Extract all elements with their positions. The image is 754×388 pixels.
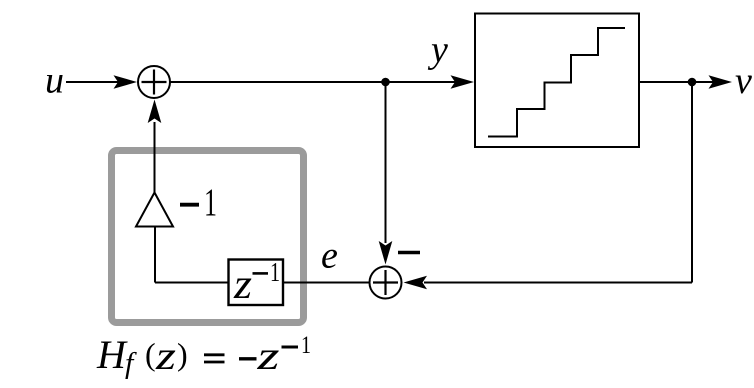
svg-text:): ) <box>177 336 188 372</box>
wire feedback right vertical <box>691 82 693 283</box>
svg-text:z: z <box>256 333 280 378</box>
delay block label exponent minus <box>253 272 269 275</box>
wire summer S2 to delay block <box>283 282 369 284</box>
wire u to summer S1 <box>66 81 118 83</box>
wire delay block to corner <box>155 282 229 284</box>
junction node v (dot) <box>688 78 697 87</box>
svg-text:1: 1 <box>204 181 217 224</box>
wire corner up to amplifier <box>154 225 156 283</box>
arrowhead into summer S2 from top <box>379 241 393 265</box>
svg-text:z: z <box>155 333 177 378</box>
formula equals sign <box>204 355 225 362</box>
wire y junction down to summer S2 <box>385 82 387 243</box>
amplifier gain label minus <box>180 203 199 207</box>
svg-text:u: u <box>45 60 64 102</box>
quantizer block Q <box>475 14 639 148</box>
arrowhead to output v <box>709 75 733 89</box>
svg-text:(: ( <box>145 336 156 372</box>
quantizer staircase symbol <box>488 28 625 137</box>
wire feedback bottom horizontal <box>424 282 692 284</box>
svg-text:H: H <box>96 332 128 377</box>
summer S2 plus sign <box>373 270 398 295</box>
wire amplifier up to summer S1 <box>154 122 156 193</box>
formula exponent minus <box>282 346 299 349</box>
junction node y (dot) <box>381 78 390 87</box>
arrowhead into summer S1 <box>114 75 138 89</box>
wire quantizer to output <box>639 81 713 83</box>
formula label H_f(z) = -z^-1 <box>96 332 311 380</box>
svg-text:v: v <box>735 60 752 102</box>
arrowhead into summer S1 from below <box>148 100 162 124</box>
wire summer S1 to quantizer <box>170 81 456 83</box>
svg-text:f: f <box>125 347 137 380</box>
summer S1 circle <box>138 66 170 98</box>
svg-text:e: e <box>321 235 338 277</box>
svg-text:y: y <box>427 29 448 71</box>
formula minus sign <box>239 357 257 360</box>
svg-text:z: z <box>233 262 252 308</box>
feedback filter enclosure (gray box) <box>112 151 304 323</box>
svg-text:1: 1 <box>301 332 311 359</box>
summer S1 plus sign <box>142 70 167 95</box>
arrowhead into quantizer <box>451 75 475 89</box>
delay block z^-1 box <box>229 260 284 306</box>
amplifier triangle A1 <box>136 193 173 227</box>
arrowhead into summer S2 from right <box>404 276 428 290</box>
minus sign at summer S2 <box>398 251 420 255</box>
svg-text:1: 1 <box>270 256 280 287</box>
summer S2 circle <box>370 267 402 299</box>
